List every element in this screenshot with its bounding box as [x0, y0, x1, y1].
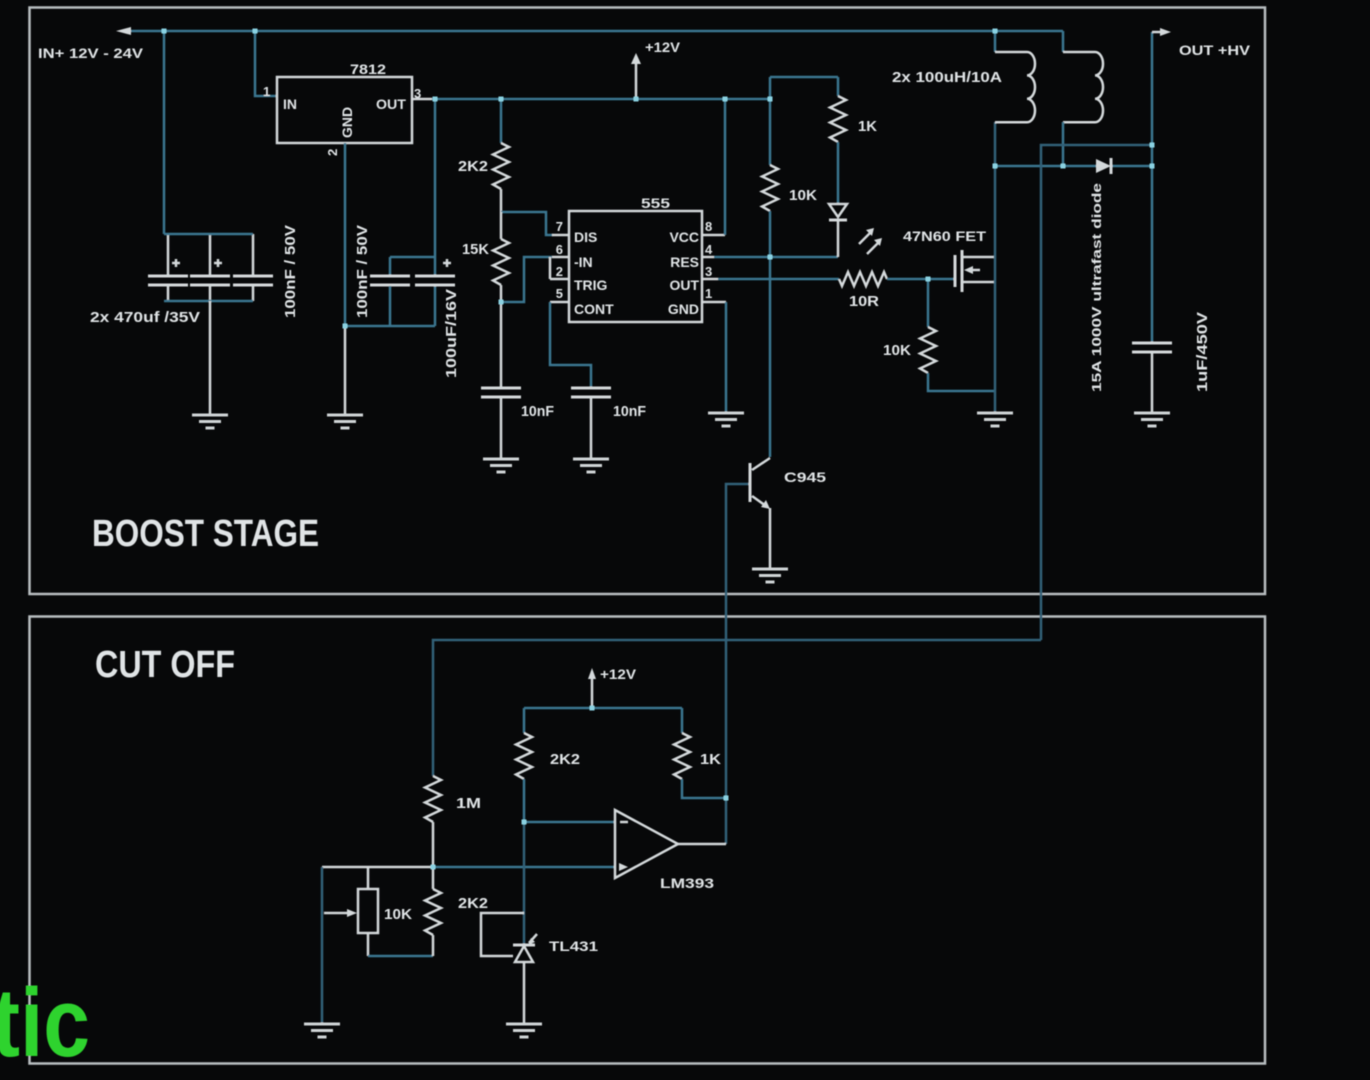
svg-text:5: 5 — [556, 286, 563, 301]
wire: C945 base column from LM393 — [726, 484, 749, 844]
wire: sense line across cutoff top — [433, 640, 1041, 776]
svg-text:GND: GND — [339, 107, 355, 138]
svg-text:CUT OFF: CUT OFF — [95, 644, 235, 686]
resistor R1 2K2 — [500, 99, 503, 143]
ground TL431 — [506, 1024, 542, 1037]
wire: VCC pin 8 to +12V bus — [724, 99, 727, 235]
svg-text:7812: 7812 — [350, 61, 386, 77]
node R3/RES — [768, 255, 773, 260]
wire: OUT pin 3 to R5 — [718, 278, 839, 281]
pin 7 stub — [552, 234, 569, 237]
resistor R4 1K — [837, 77, 840, 96]
svg-text:OUT +HV: OUT +HV — [1179, 42, 1251, 58]
svg-text:VCC: VCC — [669, 229, 699, 245]
node rail/L1 — [993, 29, 998, 34]
wire: +12V bus y=99 — [432, 98, 772, 101]
wire: rail to L2 — [1062, 31, 1065, 52]
svg-text:OUT: OUT — [669, 277, 699, 293]
wire: comparator -IN wire — [524, 821, 615, 824]
wire: +12V rail cutoff — [524, 707, 682, 710]
wire: OUT +HV rail — [1151, 32, 1154, 342]
svg-text:IN: IN — [283, 96, 297, 112]
svg-text:1K: 1K — [700, 751, 721, 768]
capacitor C3 100nF — [233, 276, 273, 285]
resistor R8 2K2 — [523, 708, 526, 733]
pin 5 stub — [550, 301, 569, 304]
wire: pot left branch to ground — [321, 867, 324, 1023]
node drain/diode — [993, 164, 998, 169]
wire: R1/R2 junction to 555 DIS pin 7 — [501, 212, 553, 235]
svg-text:+12V: +12V — [600, 666, 637, 682]
ground 7812 — [327, 415, 363, 428]
svg-text:C945: C945 — [784, 469, 826, 485]
wire: 7812 GND down — [344, 143, 347, 326]
resistor R9 1K — [681, 708, 684, 733]
node R6/gate — [926, 277, 931, 282]
svg-text:7: 7 — [556, 219, 563, 234]
svg-text:1: 1 — [263, 84, 270, 99]
svg-text:1: 1 — [705, 286, 712, 301]
diode D2 symbol — [1096, 159, 1111, 173]
node bus/R1 — [499, 97, 504, 102]
svg-text:1M: 1M — [456, 795, 481, 812]
svg-text:100nF / 50V: 100nF / 50V — [282, 225, 299, 318]
svg-text:DIS: DIS — [574, 229, 597, 245]
wire: HV sense line to cutoff — [1041, 145, 1152, 640]
wire: TRIG tie to -IN — [549, 257, 552, 279]
svg-text:2x 100uH/10A: 2x 100uH/10A — [892, 69, 1002, 86]
node +12V arrow cutoff — [590, 706, 595, 711]
svg-text:47N60 FET: 47N60 FET — [903, 228, 987, 244]
svg-text:tic: tic — [0, 968, 90, 1077]
pin 3 stub — [702, 278, 718, 281]
wire: TL431 cathode column — [523, 822, 526, 944]
ground input caps — [192, 415, 228, 428]
svg-text:2: 2 — [325, 149, 340, 156]
node 7812 gnd/cap bus — [343, 324, 348, 329]
shunt reference U4 TL431 — [513, 944, 535, 947]
node: OUT +HV arrow — [1152, 31, 1162, 34]
ground C7 — [573, 459, 609, 472]
svg-text:3: 3 — [705, 264, 712, 279]
wire: output caps bottom bus — [345, 325, 435, 328]
capacitor C6 10nF — [500, 302, 503, 387]
capacitor C1 470uF electrolytic — [148, 276, 188, 285]
svg-text:TL431: TL431 — [549, 938, 598, 954]
inductor L2 100uH — [1063, 52, 1103, 122]
svg-text:10K: 10K — [384, 906, 412, 923]
timer U2 555 — [569, 211, 702, 322]
svg-text:RES: RES — [670, 254, 699, 270]
node bus/VCC — [723, 97, 728, 102]
transistor Q1 47N60 FET — [954, 255, 957, 287]
TL431 ref feedback loop — [481, 913, 524, 956]
svg-text:CONT: CONT — [574, 301, 614, 317]
wire: CONT pin 5 to C7 — [550, 302, 591, 387]
capacitor C2 470uF electrolytic — [190, 276, 230, 285]
wire: 7812 GND to ground — [344, 326, 347, 414]
node: +12V arrow cutoff — [591, 678, 594, 708]
svg-text:1K: 1K — [858, 118, 877, 135]
svg-text:TRIG: TRIG — [574, 277, 608, 293]
svg-text:LM393: LM393 — [660, 875, 714, 891]
svg-text:15K: 15K — [462, 241, 489, 258]
wire: cap bank to ground — [209, 301, 212, 414]
node diode/out rail — [1150, 164, 1155, 169]
svg-text:10nF: 10nF — [521, 403, 554, 420]
svg-text:10K: 10K — [789, 187, 817, 204]
diode D2 line — [995, 165, 1152, 168]
node bus/R3 — [768, 97, 773, 102]
svg-text:6: 6 — [556, 242, 563, 257]
svg-text:100nF / 50V: 100nF / 50V — [354, 225, 371, 318]
LED light ray arrows — [859, 232, 871, 244]
svg-text:OUT: OUT — [376, 96, 406, 112]
node: +12V arrow — [635, 63, 638, 99]
resistor R6 10K gate pulldown — [927, 279, 930, 327]
svg-text:2K2: 2K2 — [458, 158, 488, 175]
resistor R3 10K column — [769, 77, 772, 165]
regulator U1 7812 — [277, 77, 412, 143]
svg-text:4: 4 — [705, 242, 713, 257]
capacitor C5 100uF/16V electrolytic — [415, 276, 455, 285]
svg-text:IN+ 12V - 24V: IN+ 12V - 24V — [38, 45, 144, 61]
svg-text:10R: 10R — [849, 293, 879, 310]
wire: FET drain/source column — [994, 122, 997, 412]
wire: 7812 OUT stub — [412, 98, 432, 101]
LED D1 — [829, 204, 847, 217]
svg-text:-IN: -IN — [574, 254, 593, 270]
node bus/output caps — [433, 97, 438, 102]
wire: pot bottom to R10 — [368, 955, 433, 958]
svg-text:GND: GND — [668, 301, 699, 317]
ground FET source — [977, 413, 1013, 426]
transistor Q2 C945 — [749, 463, 752, 502]
wire: cap bank top bus — [164, 233, 253, 236]
svg-text:100uF/16V: 100uF/16V — [443, 289, 460, 378]
wire: R5 to FET gate — [887, 278, 954, 281]
pin 2 stub — [550, 278, 569, 281]
wire: +12V bus down to output caps — [390, 99, 435, 275]
capacitor C4 100nF — [370, 276, 410, 285]
node sense/out rail — [1150, 143, 1155, 148]
svg-text:2: 2 — [556, 264, 563, 279]
svg-text:2K2: 2K2 — [458, 895, 488, 912]
ground C6 — [483, 459, 519, 472]
node R9/base wire — [724, 796, 729, 801]
node divider junction — [431, 865, 436, 870]
svg-text:15A 1000V ultrafast diode: 15A 1000V ultrafast diode — [1089, 183, 1104, 392]
capacitor C7 10nF — [571, 388, 611, 397]
resistor R5 10R horizontal — [839, 272, 887, 286]
ground C8 — [1134, 413, 1170, 426]
node R2/C6 — [499, 300, 504, 305]
svg-text:555: 555 — [641, 195, 670, 211]
node R8/-IN — [522, 820, 527, 825]
pin 6 stub — [552, 256, 569, 259]
resistor R7 1M — [425, 776, 441, 822]
inductor L1 100uH — [995, 52, 1035, 122]
wire: RES pin 4 net — [714, 256, 838, 259]
op-amp U3 LM393 — [615, 810, 678, 878]
node rail/cap bank — [162, 29, 167, 34]
node L2/diode — [1061, 164, 1066, 169]
pin 8 stub — [702, 234, 725, 237]
wire: divider to comparator +IN — [322, 866, 433, 869]
wire: rail down to 7812 pin 1 — [255, 31, 277, 96]
svg-text:+12V: +12V — [645, 39, 681, 55]
wire: rail to input cap bank — [163, 31, 166, 234]
svg-text:BOOST STAGE: BOOST STAGE — [92, 513, 319, 555]
pin 1 stub — [702, 301, 726, 304]
wiper arrow — [324, 912, 348, 915]
ground Q2 emitter — [752, 569, 788, 582]
svg-text:10nF: 10nF — [613, 403, 646, 420]
svg-text:2x 470uf /35V: 2x 470uf /35V — [90, 309, 200, 326]
wire: IN+ top rail y=31 — [127, 30, 1063, 33]
wire: R2 bottom to 555 -IN pin 6 — [501, 257, 552, 302]
svg-text:1uF/450V: 1uF/450V — [1194, 312, 1211, 392]
pin 4 stub — [702, 256, 714, 259]
node bus/+12V arrow — [634, 97, 639, 102]
resistor R2 15K — [500, 212, 503, 239]
BOOST STAGE box frame — [30, 8, 1266, 595]
svg-text:2K2: 2K2 — [550, 751, 580, 768]
wire: L2 bottom to diode line — [1062, 122, 1065, 166]
CUT OFF box frame — [30, 617, 1266, 1064]
ground pot — [304, 1024, 340, 1037]
wire: cap bank bottom bus — [164, 300, 253, 303]
wire: +12V up to R4 1K — [770, 76, 838, 79]
capacitor C8 1uF/450V — [1132, 343, 1172, 352]
node: IN+ input arrow — [116, 27, 131, 35]
svg-text:10K: 10K — [883, 342, 911, 359]
wire: rail stub to L1 — [994, 31, 997, 52]
potentiometer VR1 10K — [358, 889, 378, 933]
svg-text:8: 8 — [705, 219, 712, 234]
node rail/7812 — [253, 29, 258, 34]
ground 555 — [708, 413, 744, 426]
wire: 555 GND pin 1 down — [725, 302, 728, 412]
resistor R10 2K2 — [432, 867, 435, 889]
